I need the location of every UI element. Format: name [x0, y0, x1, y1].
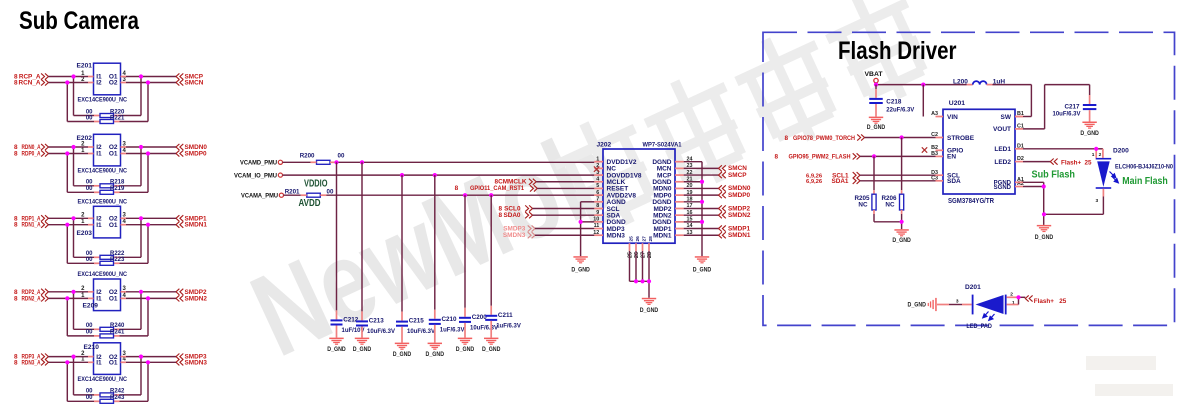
ESD suppressor E210 EXC14CE900U_NC: [78, 343, 128, 383]
output chevron SMDP0: [719, 192, 726, 198]
resistor R220 00: [86, 109, 125, 117]
input chevron SDA1: [853, 178, 860, 184]
svg-text:8: 8: [14, 359, 18, 366]
svg-text:C210: C210: [442, 316, 458, 323]
wire C210 to ground: [434, 325, 436, 343]
svg-text:VIN: VIN: [947, 114, 958, 121]
flash driver IC U201 SGM3784YG/TR: [943, 100, 1015, 205]
junctions E203: [65, 216, 150, 227]
svg-text:00: 00: [86, 115, 93, 121]
svg-text:Sub Camera: Sub Camera: [19, 7, 140, 35]
net label 8 SCL0: [499, 205, 521, 212]
wire VBAT rail to L200: [876, 84, 967, 86]
svg-text:GPIO78_PWM0_TORCH: GPIO78_PWM0_TORCH: [793, 135, 855, 142]
svg-text:3: 3: [956, 299, 959, 305]
svg-text:R243: R243: [110, 395, 125, 401]
svg-text:VCAMD_PMU: VCAMD_PMU: [240, 160, 277, 167]
svg-text:00: 00: [86, 330, 93, 336]
net label 6,9,26 SCL1: [806, 173, 849, 180]
junctions on rails: [334, 160, 493, 197]
wire LED1 to D200: [1023, 149, 1103, 158]
wire RDN1_A row2 E203: [48, 224, 176, 226]
svg-text:00: 00: [86, 395, 93, 401]
svg-text:E203: E203: [77, 230, 93, 237]
output chevron SMCN: [719, 165, 726, 171]
svg-text:SW: SW: [1001, 114, 1012, 121]
svg-text:RDN3_A: RDN3_A: [22, 359, 41, 366]
wire bypass loop row2 E202: [67, 154, 148, 193]
connector J202 WP7-S024VA1: [597, 142, 682, 244]
port VCAMD_PMU: [240, 160, 283, 167]
watermark: [234, 0, 1173, 396]
svg-text:3: 3: [1096, 198, 1099, 204]
svg-text:D_GND: D_GND: [327, 346, 346, 353]
output chevron SMDP1: [176, 215, 183, 221]
ground D_GND under R205 R206: [892, 229, 911, 244]
pin numbers E202: [81, 141, 126, 154]
port VCAMA_PMU: [241, 192, 284, 199]
wire C217 to ground: [1089, 110, 1091, 121]
wire RDN3_A row2 E210: [48, 361, 176, 363]
capacitor C218 22uF/6.3V: [869, 98, 914, 113]
svg-text:D201: D201: [965, 284, 981, 291]
input chevron FLASH: [853, 153, 860, 159]
pin stubs J202 right: [675, 162, 684, 236]
svg-text:R223: R223: [110, 257, 125, 263]
wire SW to VBAT rail: [1015, 116, 1023, 118]
svg-text:22uF/6.3V: 22uF/6.3V: [886, 107, 914, 113]
wire VOUT to C217: [1023, 85, 1090, 129]
svg-text:10uF/6.3V: 10uF/6.3V: [367, 329, 395, 335]
input chevron SCL1: [853, 172, 860, 178]
wire SMCP from J202: [684, 174, 719, 176]
rotated pin number labels 25 26 27 28: [628, 252, 654, 258]
pin stubs J202 bottom pins 25-28: [630, 243, 650, 251]
wire SDA: [533, 214, 595, 216]
net label 8 GPIO78_PWM0_TORCH: [785, 135, 856, 142]
svg-text:RDN1_A: RDN1_A: [22, 222, 41, 229]
svg-text:25: 25: [1059, 298, 1067, 305]
input chevron RDP3_A: [41, 354, 48, 360]
input chevron RDP2_A: [41, 289, 48, 295]
svg-text:MDN1: MDN1: [653, 233, 672, 240]
wire STROBE net: [865, 137, 936, 139]
net label 8 RDP3_A: [14, 354, 41, 361]
port VCAM_IO_PMU: [234, 172, 283, 179]
svg-text:SMDN1: SMDN1: [185, 222, 208, 229]
ESD suppressor E201 EXC14CE900U_NC: [77, 63, 128, 104]
svg-text:SGM3784YG/TR: SGM3784YG/TR: [948, 198, 994, 205]
svg-text:EXC14CE900U_NC: EXC14CE900U_NC: [78, 376, 128, 383]
svg-text:R242: R242: [110, 389, 125, 395]
svg-text:8: 8: [14, 295, 18, 302]
capacitor C213 10uF/6.3V: [356, 317, 395, 335]
svg-text:C218: C218: [886, 98, 902, 105]
ESD suppressor E203 EXC14CE900U_NC: [77, 199, 128, 238]
wire C200 to ground: [464, 323, 466, 338]
svg-text:VDDIO: VDDIO: [304, 179, 328, 190]
svg-text:EXC14CE900U_NC: EXC14CE900U_NC: [78, 97, 128, 104]
svg-text:U201: U201: [949, 100, 965, 107]
svg-text:27: 27: [641, 252, 647, 258]
wire AGND DGND to ground: [581, 202, 595, 256]
svg-text:WP7-S024VA1: WP7-S024VA1: [643, 142, 682, 149]
svg-text:25: 25: [628, 236, 634, 242]
output chevron SMDN3: [176, 359, 183, 365]
power port VBAT: [865, 71, 884, 85]
svg-text:10uF/6.3V: 10uF/6.3V: [407, 329, 435, 335]
wire SCL1: [860, 174, 936, 176]
net label 8 GPIO11_CAM_RST1: [455, 185, 525, 192]
junction D201 anode: [1016, 295, 1020, 299]
wire RDP1_A row1 E203: [48, 217, 176, 219]
wire bypass loop row1 E209: [74, 292, 142, 330]
svg-text:SDA: SDA: [947, 178, 961, 185]
svg-text:00: 00: [327, 188, 334, 195]
svg-text:EXC14CE900U_NC: EXC14CE900U_NC: [78, 168, 128, 175]
wire bypass loop row1 E210: [74, 357, 142, 395]
wire VBAT to C218: [875, 85, 877, 98]
svg-text:SDA1: SDA1: [831, 178, 848, 185]
svg-text:LED_PAD: LED_PAD: [966, 323, 992, 330]
net label 8 RDN1_A: [14, 222, 41, 229]
resistor R218 00: [86, 180, 125, 188]
svg-text:L200: L200: [953, 79, 968, 86]
wire rail to C215: [401, 175, 403, 321]
svg-text:RDN2_A: RDN2_A: [22, 295, 41, 302]
capacitor C212 1uF/10V: [331, 316, 365, 334]
wire RDN0_A row1 E202: [48, 146, 176, 148]
wire SMDN0 from J202: [684, 187, 719, 189]
svg-text:SMDP0: SMDP0: [728, 192, 750, 199]
ground D_GND under C210: [426, 343, 445, 358]
output chevron SMDP3: [176, 354, 183, 360]
wire LED2 to Flash+: [1023, 161, 1050, 163]
wire L200 to SW: [993, 85, 1032, 117]
pin numbers E209: [81, 286, 126, 299]
wire AVDD rail: [284, 194, 595, 196]
output chevron SMCP: [719, 172, 726, 178]
svg-text:I1: I1: [96, 151, 102, 158]
svg-text:NC: NC: [885, 201, 895, 208]
svg-text:D_GND: D_GND: [693, 267, 712, 274]
net label 8 RDN2_A: [14, 295, 41, 302]
wire bypass loop row1 E203: [74, 218, 142, 257]
output chevron SMDP2: [719, 205, 726, 211]
output chevron SMDN1: [176, 222, 183, 228]
svg-text:O2: O2: [109, 80, 118, 87]
svg-text:R219: R219: [110, 186, 125, 192]
resistor R240 00: [86, 323, 125, 331]
resistor R221 00: [86, 115, 125, 123]
svg-text:D_GND: D_GND: [640, 307, 659, 314]
svg-text:STROBE: STROBE: [947, 135, 975, 142]
net label 8 RDP2_A: [14, 289, 41, 296]
svg-text:C215: C215: [409, 318, 425, 325]
wire RESET: [537, 187, 594, 189]
svg-text:J202: J202: [597, 142, 612, 149]
svg-text:00: 00: [86, 389, 93, 395]
pin numbers E201: [81, 71, 126, 83]
input chevron RCP_A: [41, 73, 48, 79]
capacitor C200 10uF/6.3V: [459, 314, 498, 332]
wire D201 anode pins: [1007, 297, 1026, 304]
junction AGND/DGND: [579, 220, 583, 224]
Flash Driver boundary box: [763, 32, 1175, 325]
wire J202 bottom pins to ground: [630, 251, 650, 298]
wire rail to C213: [361, 162, 363, 320]
svg-text:D_GND: D_GND: [892, 237, 911, 244]
svg-text:I1: I1: [96, 222, 102, 229]
wire rail to C212: [336, 162, 338, 319]
svg-text:O1: O1: [109, 222, 118, 229]
wire C211 to ground: [490, 321, 492, 338]
net label Flash+ 25: [1061, 159, 1092, 166]
resistor R222 00: [86, 251, 125, 259]
pin numbers J202 left: [593, 156, 599, 236]
svg-text:SMDN1: SMDN1: [728, 232, 751, 239]
svg-text:8: 8: [14, 80, 18, 87]
svg-text:LED1: LED1: [994, 146, 1011, 153]
wire rail to C210: [434, 175, 436, 319]
resistor R201 00: [285, 188, 334, 197]
output chevron SMDP2: [176, 289, 183, 295]
ground D_GND under C215: [393, 343, 412, 358]
svg-text:R218: R218: [110, 180, 125, 186]
svg-text:00: 00: [338, 152, 345, 159]
ground D_GND at D201: [908, 298, 937, 311]
wire rail to C200: [464, 195, 466, 317]
wire SCL: [533, 207, 595, 209]
ground D_GND under C211: [482, 338, 501, 353]
svg-text:E210: E210: [84, 344, 100, 351]
svg-text:SMDN3: SMDN3: [185, 359, 208, 366]
junction STROBE/R206: [900, 135, 904, 139]
junctions E209: [65, 290, 150, 301]
svg-text:E201: E201: [77, 63, 93, 70]
input chevron SDA0: [525, 212, 532, 218]
resistor R242 00: [86, 389, 125, 397]
resistor R241 00: [86, 330, 125, 338]
wire bypass loop row2 E203: [67, 225, 148, 264]
svg-text:Main Flash: Main Flash: [1122, 175, 1168, 187]
no-connect X on U201 GPIO pin B2: [922, 147, 927, 152]
input chevron 8CMMCLK: [529, 179, 536, 185]
ground D_GND under C213: [353, 338, 372, 353]
svg-text:00: 00: [86, 323, 93, 329]
svg-text:10uF/6.3V: 10uF/6.3V: [1052, 112, 1080, 118]
net label 6,9,26 SDA1: [806, 178, 849, 185]
wire RCP_A row1 E201: [48, 76, 176, 78]
resistor R219 00: [86, 186, 125, 194]
svg-text:R201: R201: [285, 188, 300, 195]
input chevron SCL0: [525, 205, 532, 211]
output chevron SMDN2: [719, 212, 726, 218]
svg-text:C211: C211: [498, 312, 513, 319]
svg-text:RDP0_A: RDP0_A: [22, 151, 41, 158]
ground D_GND under C200: [456, 338, 475, 353]
svg-text:SMDN3: SMDN3: [503, 232, 526, 239]
resistor R200 00: [300, 152, 345, 164]
svg-text:R200: R200: [300, 152, 315, 159]
wire STROBE net down to R206: [901, 138, 903, 195]
ESD suppressor E202 EXC14CE900U_NC: [77, 134, 128, 174]
wire rail to C211: [490, 195, 492, 315]
junctions VBAT rail: [874, 83, 926, 87]
svg-text:SMDN2: SMDN2: [185, 295, 208, 302]
resistor R223 00: [86, 257, 125, 265]
svg-text:25: 25: [1085, 159, 1093, 166]
svg-text:R241: R241: [110, 330, 125, 336]
net label 8 RDP0_A: [14, 151, 41, 158]
wire RCN_A row2 E201: [48, 82, 176, 84]
svg-text:00: 00: [86, 257, 93, 263]
svg-text:C217: C217: [1064, 104, 1080, 111]
svg-text:VCAM_IO_PMU: VCAM_IO_PMU: [234, 172, 277, 179]
svg-text:1uF/6.3V: 1uF/6.3V: [440, 327, 465, 333]
junctions E210: [65, 355, 150, 365]
junction LED1/D200: [1094, 147, 1098, 151]
svg-text:EN: EN: [947, 154, 956, 161]
pin numbers E210: [81, 351, 126, 363]
chevron SMDP3: [528, 225, 535, 231]
input chevron RDN2_A: [41, 295, 48, 301]
svg-text:D_GND: D_GND: [1080, 130, 1099, 137]
junction EN/R205: [872, 154, 876, 158]
wire bypass loop row2 E210: [67, 362, 148, 401]
pin numbers J202 right: [687, 156, 693, 236]
svg-text:SGND: SGND: [994, 185, 1012, 191]
svg-text:Flash Driver: Flash Driver: [838, 37, 957, 65]
resistor R205 NC: [854, 194, 876, 210]
svg-text:SMCP: SMCP: [728, 172, 747, 179]
wire ground to D201: [937, 304, 972, 306]
svg-text:EXC14CE900U_NC: EXC14CE900U_NC: [78, 271, 128, 278]
svg-text:1uF/10V: 1uF/10V: [342, 328, 365, 334]
pin numbers E203: [81, 213, 126, 225]
junctions bottom bus: [634, 279, 651, 283]
svg-text:8: 8: [455, 185, 459, 192]
output chevron SMDN0: [176, 144, 183, 150]
input chevron GPIO11_CAM_RST1: [530, 185, 537, 191]
ground D_GND under C218: [867, 117, 886, 131]
svg-text:00: 00: [86, 180, 93, 186]
svg-text:VCAMA_PMU: VCAMA_PMU: [241, 192, 278, 199]
pin stubs U201: [936, 117, 1024, 187]
svg-text:SMDP0: SMDP0: [185, 151, 207, 158]
output chevron SMDP0: [176, 150, 183, 156]
svg-text:ELCH06-BJ4J6Z10-N0: ELCH06-BJ4J6Z10-N0: [1115, 165, 1174, 171]
svg-text:GPIO11_CAM_RST1: GPIO11_CAM_RST1: [470, 185, 524, 192]
svg-text:D_GND: D_GND: [393, 351, 412, 358]
svg-text:D_GND: D_GND: [908, 301, 927, 308]
wire SDA1: [860, 180, 936, 182]
svg-text:MDN3: MDN3: [607, 233, 626, 240]
junctions E201: [65, 74, 150, 84]
svg-text:I2: I2: [96, 80, 102, 87]
junctions DGND bus: [700, 180, 704, 224]
svg-text:28: 28: [648, 236, 654, 242]
wire R205 R206 to ground: [874, 210, 902, 229]
svg-text:D_GND: D_GND: [867, 124, 886, 131]
svg-text:D_GND: D_GND: [482, 346, 501, 353]
net label 8 GPIO95_PWM2_FLASH: [775, 154, 851, 161]
wire C215 to ground: [401, 327, 403, 343]
svg-text:26: 26: [635, 236, 641, 242]
ground D_GND under C217: [1080, 122, 1099, 138]
svg-text:C213: C213: [369, 317, 385, 324]
svg-text:O1: O1: [109, 296, 118, 303]
wire SMCN from J202: [684, 167, 719, 169]
svg-text:Sub Flash: Sub Flash: [1032, 169, 1076, 181]
ground D_GND under U201: [1035, 225, 1054, 241]
svg-text:2: 2: [1099, 152, 1102, 158]
net label 8 RCP_A: [14, 74, 41, 81]
wire EN net down to R205: [873, 156, 875, 194]
LED D200 light arrows: [1110, 172, 1119, 183]
svg-text:D_GND: D_GND: [456, 346, 475, 353]
wire RDP0_A row2 E202: [48, 153, 176, 155]
wire SMDN2 from J202: [684, 214, 719, 216]
input chevron RDP0_A: [41, 150, 48, 156]
svg-text:SMDN2: SMDN2: [728, 212, 751, 219]
wire C218 to ground: [875, 104, 877, 117]
capacitor C217 10uF/6.3V: [1052, 104, 1096, 118]
junction R206 ground: [900, 220, 904, 224]
ground D_GND left of J202: [571, 256, 590, 273]
output chevron SMDP1: [719, 225, 726, 231]
svg-text:E209: E209: [83, 303, 99, 310]
wire SMDP2 from J202: [684, 207, 719, 209]
svg-text:Flash+: Flash+: [1061, 159, 1081, 166]
input chevron RDP1_A: [41, 215, 48, 221]
wire bypass loop row2 E209: [67, 298, 148, 336]
input chevron RDN1_A: [41, 222, 48, 228]
pin numbers U201 left: [931, 111, 938, 181]
wire MDP3: [535, 228, 594, 230]
input chevron TORCH: [857, 134, 864, 140]
wire RDP3_A row1 E210: [48, 356, 176, 358]
wire PGND SGND to ground: [1023, 182, 1044, 225]
inductor L200 1uH: [953, 79, 1005, 86]
svg-text:27: 27: [641, 236, 647, 242]
chevron SMDN3: [528, 232, 535, 238]
capacitor C215 10uF/6.3V: [396, 318, 435, 336]
svg-text:R240: R240: [110, 323, 125, 329]
svg-text:D200: D200: [1113, 148, 1129, 155]
wire SMDP1 from J202: [684, 228, 719, 230]
wire D200 cathode to ground bus: [1044, 189, 1103, 215]
svg-text:00: 00: [86, 186, 93, 192]
svg-text:8: 8: [499, 212, 503, 219]
output chevron SMCN: [176, 79, 183, 85]
pin stubs J202 left: [594, 162, 603, 236]
output chevron SMDN1: [719, 232, 726, 238]
net label 8 SDA0: [499, 212, 521, 219]
junction SGND: [1042, 184, 1046, 188]
svg-text:NewMob: NewMob: [234, 103, 633, 381]
output chevron SMDN0: [719, 185, 726, 191]
output chevron Flash+ D201: [1025, 295, 1032, 301]
wire bypass loop row1 E202: [74, 147, 142, 186]
net label 8 RDP1_A: [14, 215, 41, 222]
wire SMDN1 from J202: [684, 234, 719, 236]
input chevron RDN3_A: [41, 359, 48, 365]
wire DVDD1V2 rail: [283, 161, 595, 163]
junction D200 return: [1042, 212, 1046, 216]
junctions E202: [65, 145, 150, 156]
wire C213 to ground: [361, 327, 363, 338]
